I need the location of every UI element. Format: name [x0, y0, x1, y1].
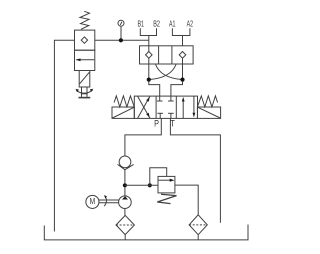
svg-text:A1: A1	[169, 18, 176, 28]
svg-text:B2: B2	[153, 18, 160, 28]
svg-text:A2: A2	[187, 18, 194, 28]
svg-text:M: M	[90, 196, 96, 206]
svg-text:T: T	[170, 117, 175, 128]
svg-text:P: P	[154, 117, 159, 128]
svg-text:B1: B1	[138, 18, 145, 28]
